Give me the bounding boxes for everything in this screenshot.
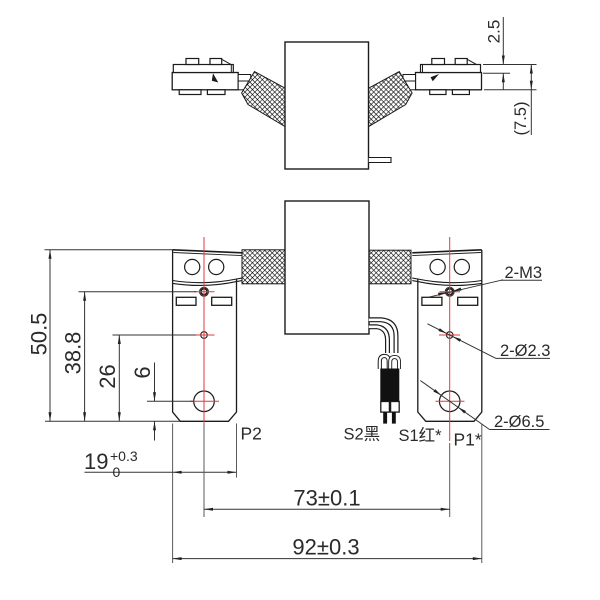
wire stub right — [392, 412, 396, 424]
svg-text:P2: P2 — [241, 424, 262, 444]
left slot 1 — [176, 297, 196, 305]
callout 2-M3 — [428, 280, 503, 298]
right M3 tapped hole — [447, 289, 453, 295]
right hole D6.5 — [439, 391, 460, 412]
right plate P1 outline — [418, 250, 482, 421]
center block (top view) — [285, 42, 369, 169]
left terminal body (top view) — [172, 73, 238, 90]
svg-text:2-Ø6.5: 2-Ø6.5 — [494, 413, 544, 431]
left terminal lower tab 1 — [179, 90, 201, 95]
sensor lead tab exiting block (top view) — [369, 158, 391, 163]
sensor wire S1 (inner) — [369, 327, 388, 353]
left braid strap (top view, cross-hatched) — [242, 72, 286, 127]
svg-text:19: 19 — [84, 449, 108, 474]
wire stub left — [383, 412, 387, 424]
left terminal chamfer line — [222, 59, 231, 64]
right terminal lower tab 2 — [452, 90, 469, 95]
extension lines left stack — [45, 250, 197, 422]
svg-text:26: 26 — [95, 364, 120, 388]
svg-text:(7.5): (7.5) — [512, 102, 530, 136]
left M3 tapped hole — [201, 289, 207, 295]
black sleeve over wires — [380, 369, 399, 402]
svg-text:0: 0 — [113, 464, 121, 480]
right terminal top plate — [421, 65, 481, 73]
left terminal braid clamp block — [238, 75, 251, 90]
dimension (7.5) (top view, terminal height) — [484, 65, 537, 136]
left terminal upper tab 2 — [210, 59, 222, 65]
left terminal top plate inner end line — [230, 65, 232, 73]
svg-text:92±0.3: 92±0.3 — [292, 535, 359, 560]
weld arrow on right terminal — [431, 74, 440, 81]
dimension 2.5 (top view, plate thickness) — [483, 17, 537, 90]
right terminal body (top view) — [416, 73, 482, 90]
left hole D6.5 — [194, 391, 215, 412]
dimension 73±0.1 — [203, 424, 205, 517]
svg-text:6: 6 — [130, 366, 155, 378]
dimension 38.8 — [84, 292, 86, 422]
right bracket hole 2 — [454, 259, 469, 274]
weld arrow on left terminal — [212, 73, 219, 82]
right hole D2.3 — [446, 332, 453, 339]
right terminal upper tab 2 — [455, 59, 467, 65]
svg-text:38.8: 38.8 — [61, 332, 86, 375]
svg-text:2.5: 2.5 — [485, 20, 504, 44]
dimension 26 — [118, 335, 120, 421]
svg-text:S1红*: S1红* — [399, 426, 443, 445]
left bracket (bent top of P2) — [173, 250, 242, 253]
left slot 2 — [212, 297, 232, 305]
left braid (front view, cross-hatched) — [242, 250, 285, 284]
left hole D2.3 — [201, 332, 208, 339]
red crosshair ticks — [194, 291, 215, 293]
dimension 50.5 — [49, 250, 51, 422]
right braid strap (top view, cross-hatched) — [368, 72, 412, 127]
left plate P2 outline — [173, 250, 237, 421]
left terminal lower tab 2 — [207, 90, 225, 95]
svg-text:2-M3: 2-M3 — [505, 264, 543, 282]
left terminal upper tab 1 — [186, 59, 199, 65]
left terminal top plate — [173, 65, 233, 73]
left bracket hole 1 — [185, 259, 200, 274]
right terminal lower tab 1 — [430, 90, 446, 95]
svg-text:50.5: 50.5 — [27, 313, 52, 356]
svg-text:S2黑: S2黑 — [344, 425, 381, 444]
callout 2-Ø2.3 — [428, 324, 497, 359]
ferrule right — [391, 402, 400, 413]
right bracket hole 1 — [430, 259, 445, 274]
wire loop bumps above sleeve — [380, 356, 389, 369]
red centerline left plate — [203, 237, 205, 424]
dimension 6 — [154, 363, 156, 402]
right slot 2 — [458, 297, 478, 305]
right terminal top plate inner end line — [422, 65, 424, 73]
sensor wire S2 (outer) — [369, 320, 396, 353]
right terminal upper tab 1 — [432, 59, 445, 65]
dimension 19 +0.3/0 — [172, 424, 174, 478]
right terminal chamfer line — [467, 59, 476, 64]
svg-text:73±0.1: 73±0.1 — [293, 486, 360, 511]
center block (front view) — [285, 201, 369, 334]
right bracket (bent top of P1) — [412, 250, 482, 253]
ferrule left — [381, 402, 390, 413]
svg-text:+0.3: +0.3 — [110, 448, 138, 464]
svg-text:2-Ø2.3: 2-Ø2.3 — [500, 342, 550, 360]
svg-text:P1*: P1* — [454, 430, 482, 450]
right slot 1 — [422, 297, 442, 305]
right terminal braid clamp block — [403, 75, 416, 90]
red centerline right plate — [449, 237, 451, 441]
dimension 92±0.3 — [172, 478, 174, 564]
callout 2-Ø6.5 — [420, 381, 489, 430]
right braid (front view, cross-hatched) — [369, 250, 411, 284]
left bracket hole 2 — [209, 259, 224, 274]
